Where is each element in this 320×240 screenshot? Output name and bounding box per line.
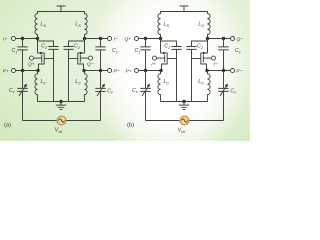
svg-text:Q−: Q− — [87, 62, 94, 68]
svg-text:P+: P+ — [126, 68, 132, 74]
svg-text:I+: I+ — [3, 36, 7, 42]
svg-text:I−: I− — [114, 36, 118, 42]
svg-text:Q+: Q+ — [125, 36, 132, 42]
svg-text:P−: P− — [236, 68, 242, 74]
svg-text:I−: I− — [214, 62, 218, 68]
svg-text:(b): (b) — [127, 123, 134, 129]
svg-text:Q−: Q− — [237, 36, 244, 42]
svg-text:(a): (a) — [4, 123, 11, 129]
oscillator core (b) — [135, 6, 235, 125]
svg-text:I+: I+ — [151, 62, 155, 68]
svg-text:Q+: Q+ — [28, 62, 35, 68]
oscillator core (a) — [12, 6, 112, 125]
svg-text:P−: P− — [114, 68, 120, 74]
svg-text:P+: P+ — [3, 68, 9, 74]
